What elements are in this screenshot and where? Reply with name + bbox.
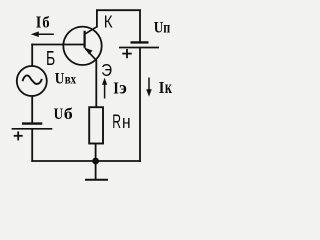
wire: battery Uп to bottom rail	[139, 48, 141, 162]
svg-text:U: U	[154, 19, 164, 36]
AC source G1 (Uвх input generator)	[17, 66, 47, 96]
svg-text:I: I	[113, 79, 119, 98]
svg-text:К: К	[104, 11, 113, 31]
base bar	[83, 31, 85, 48]
wire: base horizontal from left column to transistor base	[31, 44, 84, 46]
svg-text:н: н	[122, 112, 131, 132]
svg-text:б: б	[42, 15, 49, 32]
svg-text:I: I	[159, 78, 165, 97]
svg-text:к: к	[165, 77, 173, 97]
wire: AC source bottom to battery Uб	[31, 96, 33, 123]
svg-text:R: R	[112, 112, 121, 133]
arrow Iк (collector current, downward)	[146, 78, 152, 97]
label Uб	[54, 106, 73, 123]
wire: emitter to resistor Rн	[95, 60, 97, 108]
svg-text:б: б	[64, 106, 73, 123]
svg-text:I: I	[36, 13, 42, 32]
battery Uп (short thick plate over long thin plate)	[119, 42, 159, 47]
wire: bottom rail	[31, 160, 141, 162]
wire: left column top (corner to AC source top)	[31, 44, 33, 67]
label Iб	[36, 13, 50, 32]
arrow Iэ (emitter current, upward)	[102, 78, 107, 99]
svg-text:вх: вх	[65, 72, 77, 87]
svg-text:U: U	[54, 106, 64, 123]
svg-text:э: э	[119, 78, 127, 98]
wire: resistor to junction dot	[95, 144, 97, 162]
wire: top rail	[96, 9, 141, 11]
wire: battery Uб to bottom rail	[31, 129, 33, 162]
emitter diagonal with arrow toward base	[85, 48, 97, 61]
resistor Rн	[89, 107, 103, 143]
label Rн	[112, 112, 130, 133]
svg-text:U: U	[55, 71, 65, 88]
label Uвх	[55, 71, 76, 88]
svg-text:Э: Э	[101, 60, 112, 80]
ground	[85, 161, 108, 180]
label + (Uп polarity)	[122, 49, 131, 58]
label Iк	[159, 77, 173, 97]
junction dot (emitter node on bottom rail)	[92, 158, 99, 165]
label Uп	[154, 19, 171, 36]
svg-text:п: п	[163, 19, 170, 36]
svg-text:Б: Б	[46, 48, 55, 70]
collector diagonal	[85, 27, 97, 34]
wire: collector to top rail	[96, 10, 98, 28]
arrow Iб (base current, leftward)	[31, 31, 54, 37]
transistor VT1 (PNP, emitter follower)	[63, 27, 101, 65]
label Iэ	[113, 78, 127, 98]
wire: top rail down to battery Uп	[139, 10, 141, 42]
label + (Uб polarity)	[14, 131, 23, 140]
battery Uб (short thick plate over long thin plate)	[12, 124, 53, 129]
